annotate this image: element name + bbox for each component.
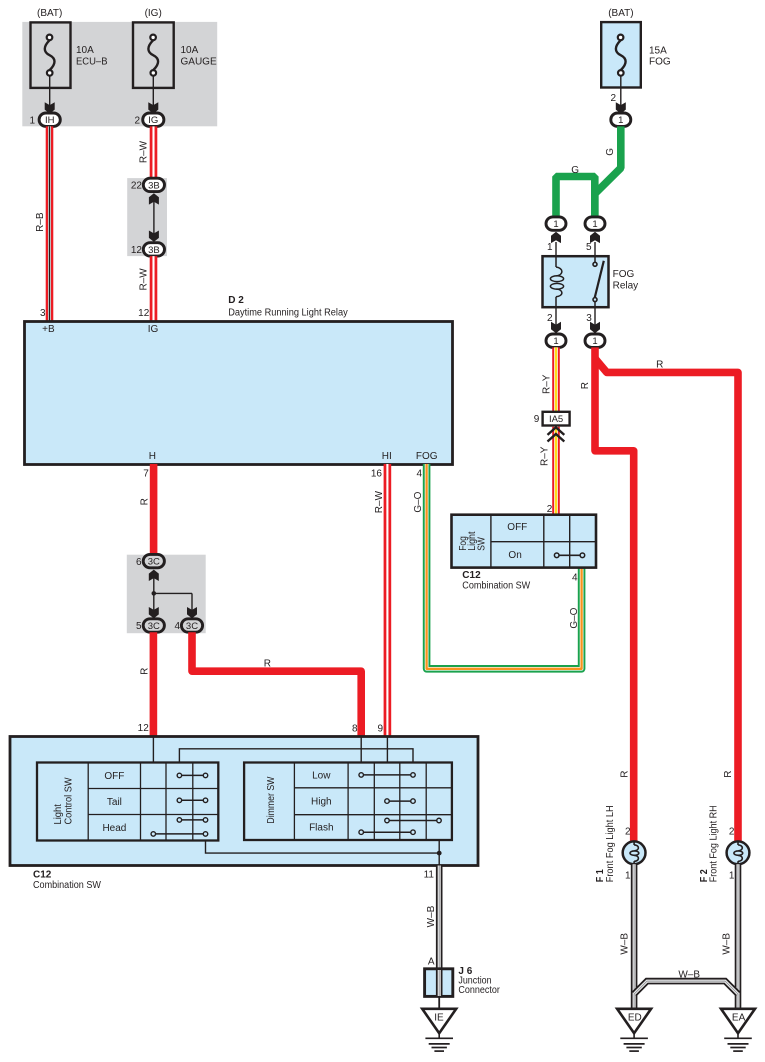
connector 1 below fuse FOG (arrow + oval) xyxy=(611,102,631,126)
pin 12 label of C12 xyxy=(138,723,150,734)
switch Light Control SW (table) xyxy=(37,763,218,841)
pin +B label inside D2 xyxy=(42,324,55,335)
pin 1 label at connector IH xyxy=(29,115,35,126)
connector 3C background box xyxy=(127,555,206,634)
svg-text:1: 1 xyxy=(29,115,35,126)
svg-text:Tail: Tail xyxy=(107,797,122,808)
svg-text:Front Fog Light LH: Front Fog Light LH xyxy=(605,805,616,882)
label R-B xyxy=(35,212,46,232)
svg-text:Front Fog Light RH: Front Fog Light RH xyxy=(709,805,720,882)
svg-text:3: 3 xyxy=(586,313,592,324)
svg-text:Flash: Flash xyxy=(309,823,333,834)
pin 3 label of FOG relay xyxy=(586,313,592,324)
svg-text:2: 2 xyxy=(610,93,616,104)
wire fuse FOG to connector 1 xyxy=(620,76,622,108)
svg-text:W–B: W–B xyxy=(619,933,630,955)
svg-text:C12: C12 xyxy=(462,570,481,581)
svg-text:1: 1 xyxy=(729,870,735,881)
label R (LH drop) xyxy=(619,771,630,778)
svg-text:3: 3 xyxy=(40,308,46,319)
svg-text:Light: Light xyxy=(53,804,64,825)
svg-text:Combination SW: Combination SW xyxy=(462,581,530,592)
contacts Head row upper xyxy=(177,818,208,823)
label C12 Combination SW xyxy=(462,570,530,592)
wire G branch to relay pin 1 connector xyxy=(556,177,595,217)
label G-O xyxy=(569,607,580,628)
wire R from D2 pin 7 to connector 3C pin 6 xyxy=(150,464,158,555)
connector 3B pin 22 (oval) xyxy=(143,178,164,191)
svg-text:Relay: Relay xyxy=(613,281,639,292)
wire R-B from IH to D2 pin 3 xyxy=(46,126,54,321)
svg-text:9: 9 xyxy=(377,723,383,734)
label R (branch horizontal) xyxy=(656,360,663,371)
label W-B (RH) xyxy=(722,933,733,955)
svg-text:(BAT): (BAT) xyxy=(608,8,633,19)
pin 4 label xyxy=(174,621,180,632)
connector IG (arrow + oval) xyxy=(143,102,164,126)
pin 16 label of D2 xyxy=(371,468,383,479)
wire G-O from D2 pin 4 to Fog Light SW pin 4 xyxy=(427,464,582,669)
node (BAT) label for fuse FOG xyxy=(608,8,633,19)
wire fuse GAUGE to connector IG xyxy=(152,76,154,108)
pin HI label inside D2 xyxy=(382,451,392,462)
svg-text:OFF: OFF xyxy=(104,771,124,782)
pin 2 label of FOG relay xyxy=(547,313,553,324)
svg-text:A: A xyxy=(428,956,435,967)
wire R-Y from relay pin 2 to IA5 xyxy=(552,347,560,412)
lamp F1 front fog light LH xyxy=(623,841,646,865)
wire R-W from 3B pin 12 to D2 pin 12 xyxy=(150,256,158,321)
wire from pin 12 into light control table xyxy=(152,737,154,763)
relay FOG Relay (box) xyxy=(543,256,639,307)
label G-O xyxy=(413,491,424,512)
svg-text:8: 8 xyxy=(352,723,358,734)
label F2 Front Fog Light RH (rotated) xyxy=(699,805,720,882)
svg-text:W–B: W–B xyxy=(426,905,437,927)
svg-text:HI: HI xyxy=(382,451,392,462)
pin 6 label xyxy=(136,557,142,568)
wire R-W from IG to connector 3B pin 22 xyxy=(150,126,158,179)
wire from pin 9 into dimmer table xyxy=(386,737,388,763)
internal output bus to pin 11 xyxy=(206,840,442,866)
svg-text:4: 4 xyxy=(572,573,578,584)
svg-text:1: 1 xyxy=(553,219,558,230)
relay D2 Daytime Running Light Relay (box) xyxy=(25,295,453,465)
connector 3C pin 6 (oval) xyxy=(143,554,164,567)
svg-text:IE: IE xyxy=(434,1013,444,1024)
junction chevrons below IA5 xyxy=(548,427,565,441)
node (BAT) label for fuse ECU-B xyxy=(37,8,62,19)
connector 1 below relay pin 3 (arrow + oval) xyxy=(585,307,605,347)
label Light Control SW (rotated) xyxy=(53,777,74,825)
svg-text:1: 1 xyxy=(592,219,597,230)
pin 1 label of F1 xyxy=(625,870,631,881)
label R-W xyxy=(138,140,149,163)
svg-text:R–W: R–W xyxy=(374,490,385,513)
svg-text:R: R xyxy=(264,658,271,669)
label F1 Front Fog Light LH (rotated) xyxy=(595,805,616,882)
connector 3B pin 12 (oval) xyxy=(143,243,164,256)
svg-text:2: 2 xyxy=(547,504,553,515)
svg-text:Low: Low xyxy=(312,771,331,782)
pin 12 label xyxy=(131,245,143,256)
wire W-B from F1 to ground ED xyxy=(631,864,638,1009)
svg-text:1: 1 xyxy=(553,336,558,347)
svg-text:R–B: R–B xyxy=(35,212,46,232)
ground EA xyxy=(721,1009,755,1051)
ground ED xyxy=(617,1009,651,1051)
svg-text:R: R xyxy=(656,360,663,371)
svg-text:G: G xyxy=(605,148,616,156)
pin 5 label xyxy=(136,621,142,632)
svg-text:GAUGE: GAUGE xyxy=(181,57,217,68)
wire from pin 8 into dimmer table xyxy=(360,737,362,763)
svg-text:+B: +B xyxy=(42,324,55,335)
wire G from fuse connector to relay pin 5 connector xyxy=(595,126,621,216)
svg-text:2: 2 xyxy=(729,826,735,837)
svg-text:2: 2 xyxy=(134,115,140,126)
pin 5 label of FOG relay xyxy=(586,242,592,253)
svg-text:IH: IH xyxy=(45,115,55,126)
pin 7 label of D2 xyxy=(143,468,149,479)
svg-text:OFF: OFF xyxy=(507,522,527,533)
svg-text:Combination SW: Combination SW xyxy=(33,880,101,891)
label Head row xyxy=(102,823,126,834)
label R-W xyxy=(138,268,149,291)
svg-text:1: 1 xyxy=(592,336,597,347)
pin H label inside D2 xyxy=(149,451,156,462)
svg-text:6: 6 xyxy=(136,557,142,568)
label R xyxy=(140,668,151,675)
label R-W xyxy=(374,490,385,513)
label Dimmer SW (rotated) xyxy=(266,776,277,823)
ground IE xyxy=(422,1009,456,1051)
wire R branch to front fog light RH xyxy=(595,359,738,842)
svg-text:Control SW: Control SW xyxy=(64,777,75,825)
svg-text:3B: 3B xyxy=(148,245,160,256)
junction wire between 3B connectors xyxy=(149,193,159,242)
connector 3B background box xyxy=(127,178,167,256)
label OFF row xyxy=(104,771,124,782)
svg-text:IA5: IA5 xyxy=(549,414,563,425)
svg-text:4: 4 xyxy=(174,621,180,632)
label G (vertical segment) xyxy=(605,148,616,156)
svg-text:16: 16 xyxy=(371,468,383,479)
pin 2 label at connector IG xyxy=(134,115,140,126)
svg-text:12: 12 xyxy=(131,245,143,256)
connector 1 below relay pin 2 (arrow + oval) xyxy=(546,307,566,347)
svg-text:22: 22 xyxy=(131,181,143,192)
label OFF row xyxy=(507,522,527,533)
svg-text:IG: IG xyxy=(148,115,158,126)
svg-text:7: 7 xyxy=(143,468,149,479)
junction connector IA5 xyxy=(543,412,570,426)
wire R from relay pin 3 down and to fog lights xyxy=(595,347,634,841)
coil of FOG relay xyxy=(550,256,563,307)
svg-text:R: R xyxy=(140,668,151,675)
label Tail row xyxy=(107,797,122,808)
wire J6 to ground IE xyxy=(438,996,440,1009)
fuse panel background (top-left) xyxy=(22,22,217,126)
svg-text:R–Y: R–Y xyxy=(539,446,550,466)
fuse 10A GAUGE xyxy=(133,22,217,88)
label R (vertical below relay) xyxy=(580,382,591,389)
svg-text:G–O: G–O xyxy=(413,491,424,512)
svg-text:3C: 3C xyxy=(186,621,198,632)
connector 1 above relay pin 1 (oval + arrow) xyxy=(546,217,566,257)
switch C12 Combination SW (box) xyxy=(10,737,478,891)
svg-text:R–W: R–W xyxy=(138,268,149,291)
junction wires inside 3C box xyxy=(149,570,197,619)
svg-text:10A: 10A xyxy=(181,45,199,56)
svg-text:1: 1 xyxy=(547,242,553,253)
svg-text:3C: 3C xyxy=(148,557,160,568)
pin IG label inside D2 xyxy=(148,324,159,335)
svg-text:High: High xyxy=(311,797,332,808)
svg-text:4: 4 xyxy=(416,468,422,479)
wire R-Y from IA5 to Fog Light SW pin 2 xyxy=(552,427,560,516)
wire R from 3C pin 5 to C12 pin 12 xyxy=(150,632,158,737)
pin 2 label of F2 xyxy=(729,826,735,837)
svg-text:(BAT): (BAT) xyxy=(37,8,62,19)
svg-text:Connector: Connector xyxy=(458,985,500,996)
contacts Head row lower xyxy=(151,832,208,837)
switch Fog Light SW (box) xyxy=(452,515,597,568)
pin FOG label inside D2 xyxy=(416,451,438,462)
pin 12 label of D2 xyxy=(138,308,150,319)
contacts Low row xyxy=(359,773,415,778)
pin 4 label of D2 xyxy=(416,468,422,479)
node (IG) label for fuse GAUGE xyxy=(145,8,162,19)
label W-B (crossover) xyxy=(678,970,700,981)
internal bus light control to dimmer xyxy=(179,749,413,763)
fuse 10A ECU-B xyxy=(31,22,108,88)
pin A label of J6 xyxy=(428,956,435,967)
label R xyxy=(264,658,271,669)
contacts OFF row xyxy=(177,773,208,778)
pin 2 label at fuse FOG xyxy=(610,93,616,104)
svg-text:G: G xyxy=(571,165,579,176)
lamp F2 front fog light RH xyxy=(727,841,750,865)
svg-text:2: 2 xyxy=(547,313,553,324)
svg-text:9: 9 xyxy=(534,414,540,425)
svg-text:Daytime Running Light Relay: Daytime Running Light Relay xyxy=(228,307,348,318)
svg-text:IG: IG xyxy=(148,324,159,335)
wire fuse ECU-B to connector IH xyxy=(49,76,51,108)
label R xyxy=(140,498,151,505)
switch contacts of FOG relay xyxy=(593,256,604,307)
label Low row xyxy=(312,771,331,782)
wire R-W from D2 pin 16 to C12 pin 9 xyxy=(384,464,392,737)
svg-text:ECU–B: ECU–B xyxy=(76,57,108,68)
svg-text:3C: 3C xyxy=(148,621,160,632)
svg-text:1: 1 xyxy=(625,870,631,881)
svg-text:R: R xyxy=(723,771,734,778)
pin 3 label of D2 xyxy=(40,308,46,319)
svg-text:1: 1 xyxy=(618,115,623,126)
svg-text:5: 5 xyxy=(586,242,592,253)
svg-text:D 2: D 2 xyxy=(228,295,244,306)
pin 11 label of C12 xyxy=(424,869,435,880)
switch Dimmer SW (table) xyxy=(244,763,452,841)
pin 1 label of F2 xyxy=(729,870,735,881)
svg-text:H: H xyxy=(149,451,156,462)
svg-text:(IG): (IG) xyxy=(145,8,162,19)
connector IH (arrow + oval) xyxy=(39,102,60,126)
label R (RH drop) xyxy=(723,771,734,778)
svg-text:2: 2 xyxy=(625,826,631,837)
svg-text:R: R xyxy=(140,498,151,505)
label On row xyxy=(508,550,521,561)
label R-Y xyxy=(542,374,553,394)
svg-text:FOG: FOG xyxy=(613,269,635,280)
pin 8 label of C12 xyxy=(352,723,358,734)
pin 22 label xyxy=(131,181,143,192)
contacts Flash row lower xyxy=(359,830,415,835)
label Flash row xyxy=(309,823,333,834)
svg-text:R: R xyxy=(580,382,591,389)
contacts Tail row xyxy=(177,798,208,803)
svg-text:Dimmer SW: Dimmer SW xyxy=(266,776,277,823)
svg-text:12: 12 xyxy=(138,723,150,734)
wire W-B crossover between LH and RH xyxy=(634,981,738,994)
svg-text:10A: 10A xyxy=(76,45,94,56)
svg-text:R–Y: R–Y xyxy=(542,374,553,394)
contacts On row xyxy=(554,553,584,558)
svg-text:R–W: R–W xyxy=(138,140,149,163)
label R-Y xyxy=(539,446,550,466)
svg-text:On: On xyxy=(508,550,521,561)
svg-text:FOG: FOG xyxy=(649,57,671,68)
label High row xyxy=(311,797,332,808)
svg-text:5: 5 xyxy=(136,621,142,632)
pin 4 label of Fog Light SW xyxy=(572,573,578,584)
label Fog Light SW (rotated) xyxy=(458,531,487,550)
pin 2 label of F1 xyxy=(625,826,631,837)
junction connector J6 xyxy=(425,966,501,996)
svg-text:ED: ED xyxy=(628,1013,642,1024)
label W-B (LH) xyxy=(619,933,630,955)
svg-text:12: 12 xyxy=(138,308,150,319)
svg-text:15A: 15A xyxy=(649,46,667,57)
connector 1 above relay pin 5 (oval + arrow) xyxy=(585,217,605,257)
pin 1 label of FOG relay xyxy=(547,242,553,253)
svg-text:3B: 3B xyxy=(148,180,160,191)
contacts Flash row upper xyxy=(385,818,442,823)
svg-text:Head: Head xyxy=(102,823,126,834)
svg-text:G–O: G–O xyxy=(569,607,580,628)
pin 9 label of C12 xyxy=(377,723,383,734)
fuse 15A FOG xyxy=(601,22,671,87)
svg-text:W–B: W–B xyxy=(722,933,733,955)
svg-text:11: 11 xyxy=(424,869,435,880)
pin 9 label at IA5 xyxy=(534,414,540,425)
connector 3C pin 5 (oval) xyxy=(143,619,164,632)
wire W-B from C12 pin 11 to J6 xyxy=(436,866,443,970)
wire R from 3C pin 4 to C12 pin 8 xyxy=(192,632,361,737)
pin 2 label of Fog Light SW xyxy=(547,504,553,515)
svg-text:EA: EA xyxy=(732,1013,746,1024)
svg-text:W–B: W–B xyxy=(678,970,700,981)
label W-B xyxy=(426,905,437,927)
label G (horizontal segment) xyxy=(571,165,579,176)
contacts High row xyxy=(385,799,416,804)
svg-text:FOG: FOG xyxy=(416,451,438,462)
svg-text:SW: SW xyxy=(476,537,487,551)
connector 3C pin 4 (oval) xyxy=(181,619,202,632)
svg-text:R: R xyxy=(619,771,630,778)
wire W-B from F2 to ground EA xyxy=(735,864,742,1009)
